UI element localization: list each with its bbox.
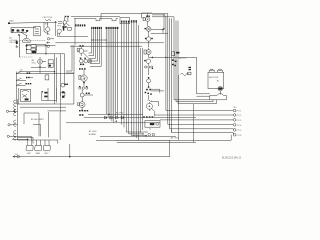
wire rung 1 bbox=[16, 73, 74, 75]
svg-text:PO 4: PO 4 bbox=[237, 125, 243, 127]
terminal pads right bbox=[62, 91, 65, 93]
wire leads bbox=[83, 70, 85, 87]
wire leads bbox=[44, 22, 48, 31]
resistor R1 bbox=[12, 29, 15, 31]
resistor R10 bbox=[68, 27, 72, 30]
svg-text:A3 CNTL: A3 CNTL bbox=[171, 136, 180, 139]
switch S2 arm bbox=[44, 32, 50, 35]
coil lead symbol bbox=[148, 100, 152, 102]
transistor Q16 bbox=[146, 59, 150, 63]
switch S1 arm bbox=[20, 32, 27, 36]
box outline bbox=[24, 113, 39, 136]
wire leads bbox=[142, 13, 148, 26]
node junction bbox=[14, 110, 16, 112]
stage pads bbox=[145, 38, 147, 39]
diode CR3 bbox=[116, 116, 118, 119]
node junction bbox=[27, 139, 29, 141]
wire loop from top bbox=[142, 12, 152, 14]
wire rung long bbox=[19, 71, 55, 73]
node junction bbox=[83, 82, 85, 84]
transistor Q3 bbox=[46, 27, 50, 31]
parts cluster lower bbox=[145, 92, 147, 93]
wire second bus bbox=[11, 26, 36, 28]
resistor R11 bbox=[77, 48, 79, 51]
box bottom line bbox=[13, 156, 170, 158]
svg-text:A2 TP1: A2 TP1 bbox=[179, 57, 187, 60]
wire comb group 4 verticals bbox=[122, 23, 148, 137]
terminal pads row bbox=[79, 86, 81, 87]
wire vertical v7 bbox=[178, 75, 180, 140]
stage pads lower bbox=[80, 64, 82, 66]
node junction bbox=[26, 45, 27, 46]
wire verticals right pair bbox=[61, 54, 65, 104]
wire vertical v8 bbox=[192, 104, 194, 143]
relay K1 cluster bbox=[145, 121, 160, 128]
terminal pad group P2 bbox=[91, 27, 102, 29]
wire vertical v6 bbox=[177, 21, 179, 104]
wire inner loop bbox=[152, 15, 164, 29]
node junction bbox=[165, 57, 166, 58]
svg-text:C A1 TP10: C A1 TP10 bbox=[42, 16, 53, 19]
switch arm 2 bbox=[16, 78, 21, 80]
node junction bbox=[26, 49, 27, 50]
wire leads bbox=[65, 17, 70, 28]
wire comb group 3 verticals bbox=[106, 29, 117, 123]
terminal pads row bbox=[79, 110, 81, 111]
terminal pads right bbox=[189, 67, 192, 68]
terminal pad group P4 bbox=[121, 20, 137, 22]
wire leads bbox=[148, 41, 150, 47]
wire leads bbox=[147, 63, 149, 65]
parts cluster bbox=[172, 64, 174, 65]
wire rails bbox=[66, 45, 72, 71]
node junction bbox=[18, 34, 20, 36]
hook contact pair 2 bbox=[14, 106, 16, 112]
wire riser bbox=[69, 144, 71, 157]
svg-text:MIC: MIC bbox=[27, 153, 31, 155]
transistor Q11 bbox=[79, 102, 85, 108]
wire leads bbox=[148, 83, 150, 87]
svg-text:A4 RCVR: A4 RCVR bbox=[209, 76, 219, 79]
coil symbol bbox=[181, 73, 189, 75]
hook contact pair 3 bbox=[14, 113, 16, 123]
wire mid bus A bbox=[57, 33, 88, 36]
wire bus jog bbox=[96, 19, 116, 21]
wire vertical v2 bbox=[167, 14, 169, 125]
hook contact pair 4 bbox=[14, 123, 16, 133]
svg-text:PO 1: PO 1 bbox=[237, 111, 243, 113]
svg-text:A1 TP2: A1 TP2 bbox=[116, 111, 124, 114]
wire comb group 5 verticals bbox=[136, 23, 142, 141]
contact pads 1 bbox=[27, 72, 29, 73]
switch arm 3 bbox=[16, 83, 21, 85]
capacitor C2 bbox=[34, 27, 41, 36]
node junction bbox=[108, 114, 109, 115]
bracket parts bbox=[61, 92, 65, 96]
wire bus lower2 bbox=[96, 139, 196, 141]
terminal circle bbox=[6, 110, 8, 112]
svg-text:KEY: KEY bbox=[44, 153, 49, 155]
hook contact pair 5 bbox=[14, 134, 16, 140]
wire to right bbox=[149, 57, 210, 93]
capacitor C3 bbox=[26, 30, 28, 32]
wire drop bbox=[10, 27, 12, 32]
svg-text:PO 6: PO 6 bbox=[237, 135, 243, 137]
node junction bbox=[45, 53, 46, 54]
pin 1 bbox=[166, 109, 242, 112]
transistor Q15 bbox=[146, 50, 151, 55]
svg-text:BOARD: BOARD bbox=[89, 133, 97, 136]
node junction bbox=[11, 32, 12, 33]
pin 2 bbox=[155, 114, 242, 117]
node junction bbox=[39, 66, 41, 68]
resistor R12 bbox=[79, 76, 81, 80]
wire transducer drops bbox=[28, 140, 49, 143]
stage parts cluster bbox=[146, 89, 148, 91]
wire from hooks to transducers bbox=[18, 137, 58, 143]
wire top of mic box bbox=[48, 110, 67, 112]
hook contact pair 1 bbox=[14, 100, 16, 106]
terminal circle bbox=[7, 135, 9, 137]
wire stub bbox=[50, 38, 54, 40]
wire top bus bbox=[9, 22, 58, 23]
wire vertical v5 bbox=[175, 21, 177, 102]
wire cluster bottom leads bbox=[48, 31, 59, 35]
wire extension bbox=[57, 53, 65, 55]
box top lines bbox=[117, 140, 196, 142]
node junction bbox=[145, 135, 146, 136]
wire vertical from bus bbox=[55, 22, 57, 36]
svg-text:PO 5: PO 5 bbox=[237, 130, 243, 132]
stage pads bbox=[80, 58, 82, 59]
wire leads bbox=[82, 89, 93, 101]
transistor Q5 bbox=[63, 21, 67, 25]
node junction bbox=[45, 45, 46, 46]
wire node line bbox=[11, 31, 27, 33]
sub box outline bbox=[27, 45, 46, 54]
wire leads bbox=[60, 84, 68, 85]
transducer LS2 bbox=[35, 143, 42, 150]
wire verticals to bottom bbox=[49, 112, 60, 140]
pads bbox=[64, 84, 66, 85]
resistor R3 bbox=[58, 22, 62, 24]
wire vertical bbox=[148, 68, 150, 75]
terminal pads bbox=[62, 26, 64, 28]
transistor Q12 bbox=[146, 17, 150, 21]
resistor R15 bbox=[144, 50, 146, 54]
terminal pads bbox=[65, 16, 67, 17]
transistor Q13 bbox=[146, 27, 151, 32]
wire vertical v4 bbox=[171, 18, 173, 132]
ground terminal on bottom line bbox=[17, 155, 20, 158]
stage pads bbox=[145, 28, 147, 29]
transistor Q19 bbox=[61, 83, 65, 87]
svg-text:NC: NC bbox=[234, 107, 238, 109]
wire mid bus C bbox=[70, 45, 142, 47]
feeder cluster left bbox=[62, 16, 75, 45]
diode CR2 bbox=[110, 116, 112, 119]
terminal pad group P3 bbox=[106, 27, 119, 29]
stage pads bbox=[144, 60, 146, 61]
wire L return bbox=[196, 135, 231, 141]
connector box P4 bbox=[120, 18, 130, 24]
relay box two cells bbox=[48, 60, 53, 68]
wire L right bbox=[151, 89, 165, 93]
parts cluster bbox=[172, 59, 174, 61]
node junction bbox=[163, 28, 164, 29]
plug symbol P2 bbox=[218, 69, 223, 72]
transducer LS1 bbox=[26, 143, 33, 150]
wire vertical to board below bbox=[19, 35, 21, 57]
node junction bbox=[152, 68, 153, 69]
wire lead down bbox=[219, 91, 221, 95]
terminal pads row bbox=[143, 116, 145, 118]
resistor R2 bbox=[17, 30, 20, 32]
node junction bbox=[42, 91, 43, 92]
plug symbol P1 bbox=[209, 69, 214, 72]
wire links right bbox=[151, 30, 168, 34]
wire top bus 1 bbox=[101, 13, 168, 20]
wire leads bbox=[148, 48, 150, 57]
resistor R8 bbox=[31, 45, 36, 48]
resistor R4 inside bbox=[35, 29, 39, 34]
stage pads bbox=[146, 16, 148, 17]
wire diagonal bbox=[152, 108, 155, 116]
wire strip rail bbox=[17, 99, 19, 140]
wire rung 2 bbox=[16, 78, 33, 81]
node junction bbox=[142, 133, 143, 134]
switch arm 1 bbox=[16, 71, 21, 73]
terminal pad bbox=[176, 52, 179, 54]
wire Q1 emitter bbox=[26, 44, 28, 46]
wire loop over column bbox=[152, 17, 174, 100]
pin 3 bbox=[160, 119, 242, 122]
svg-text:A1 MIC AMPL: A1 MIC AMPL bbox=[31, 118, 45, 121]
wire top bus 3 bbox=[74, 18, 118, 20]
wire bus bbox=[84, 116, 196, 118]
wire lead bbox=[10, 124, 17, 126]
transistor Q8 bbox=[84, 59, 88, 63]
jack tip arc bbox=[22, 90, 29, 92]
wire lead bbox=[9, 110, 18, 112]
ground symbol bbox=[25, 46, 28, 47]
wire internal bbox=[27, 46, 46, 53]
pin 5 bbox=[170, 129, 242, 132]
diode CR4 bbox=[121, 116, 123, 119]
CR diode bridge bbox=[88, 59, 92, 63]
wire lead lower bbox=[12, 138, 27, 140]
jack box J1 bbox=[21, 89, 31, 101]
arrow terminal bbox=[13, 156, 17, 158]
wire exit right bbox=[46, 46, 57, 54]
box outline bbox=[208, 72, 224, 88]
wire leads bbox=[81, 47, 87, 56]
earpiece symbol bbox=[218, 86, 223, 91]
node junction bbox=[116, 121, 117, 122]
wire comb group 2 verticals with staircase bends to the left bbox=[89, 29, 102, 66]
resistor R14 bbox=[143, 17, 145, 20]
small box bbox=[45, 75, 49, 80]
resistor R9 bbox=[31, 48, 35, 50]
wire stub bbox=[162, 30, 164, 34]
wire top bus 2 bbox=[71, 16, 120, 18]
resistor R7 bbox=[16, 41, 18, 44]
arrow terminal bbox=[47, 42, 51, 44]
node junction bbox=[148, 77, 150, 79]
wire vertical bbox=[63, 23, 65, 30]
capacitor C1 bbox=[22, 29, 24, 31]
stage pads bbox=[86, 93, 88, 94]
transistor Q14 bbox=[146, 37, 150, 41]
wire vertical v1 bbox=[165, 16, 167, 111]
node junction bbox=[69, 156, 71, 158]
resistor R5 bbox=[63, 27, 65, 30]
wire leads bbox=[148, 26, 150, 37]
terminal circle bbox=[47, 45, 49, 47]
terminal pad group P1 bbox=[75, 24, 85, 26]
sub box bbox=[42, 88, 57, 103]
svg-text:A1 1000: A1 1000 bbox=[89, 130, 98, 133]
node junction bbox=[81, 110, 83, 112]
dashed board outline A2 bbox=[20, 41, 47, 58]
jack cross contact bbox=[22, 94, 27, 97]
wire box bottom bbox=[17, 73, 74, 104]
wire vertical v3 bbox=[169, 18, 171, 129]
node junction bbox=[163, 14, 164, 15]
contact pads 2 bbox=[26, 77, 28, 78]
wire bus lower bbox=[100, 136, 176, 138]
pin 4 bbox=[168, 124, 242, 127]
ground symbol bbox=[15, 45, 18, 48]
wire bottom bbox=[197, 96, 227, 100]
pin 6 bbox=[172, 133, 243, 137]
wire bus bbox=[88, 113, 143, 115]
node junction bbox=[91, 39, 92, 40]
transistor Q10 bbox=[80, 93, 84, 97]
transistor Q7 bbox=[80, 59, 84, 63]
svg-text:OSC: OSC bbox=[32, 63, 37, 65]
stage pads bbox=[79, 45, 81, 47]
transducer LS3 bbox=[43, 143, 50, 150]
wire lead long bbox=[9, 136, 31, 140]
diode CR1 bbox=[104, 116, 106, 119]
capacitor C4 bbox=[79, 114, 81, 116]
wire mid bus B bbox=[55, 42, 164, 44]
box right edge bbox=[169, 140, 171, 156]
svg-text:GND: GND bbox=[9, 21, 14, 23]
node junction bbox=[106, 39, 107, 40]
wire vertical bbox=[74, 18, 76, 45]
terminal circles row bbox=[79, 87, 88, 89]
svg-text:PO 3: PO 3 bbox=[237, 120, 243, 122]
component box bbox=[188, 72, 191, 75]
transistor Q6 bbox=[79, 49, 84, 54]
resistor R13 bbox=[78, 103, 80, 106]
transistor Q4 bbox=[57, 29, 61, 33]
wire rail 2 bbox=[18, 88, 20, 104]
node GND terminal bbox=[8, 21, 14, 24]
node junction bbox=[54, 71, 55, 72]
terminal circles pair bbox=[148, 133, 155, 136]
resistor R16 bbox=[172, 52, 175, 56]
wire leads bbox=[40, 57, 46, 74]
node junction bbox=[148, 86, 150, 88]
wire vertical bbox=[60, 104, 62, 112]
svg-text:EL2KC012 345-13: EL2KC012 345-13 bbox=[222, 158, 242, 160]
transistor Q18 bbox=[146, 103, 152, 109]
wire rail bbox=[15, 72, 17, 105]
node junction bbox=[162, 29, 164, 31]
node junction bbox=[152, 57, 154, 59]
wire bends to pins bbox=[170, 124, 234, 134]
wire vertical bbox=[148, 95, 150, 99]
lower box with notch bbox=[210, 94, 227, 101]
wire link bbox=[83, 60, 88, 62]
wire diagonal bbox=[83, 53, 88, 58]
svg-text:EAR: EAR bbox=[36, 152, 41, 155]
crystal Y1 bbox=[32, 51, 36, 53]
box corner bbox=[33, 125, 41, 137]
wire branch right bbox=[151, 102, 159, 106]
wire verticals from crystal outputs bbox=[55, 54, 57, 104]
node junction bbox=[55, 21, 56, 22]
transistor Q9 bbox=[81, 75, 87, 81]
wire second rail bbox=[20, 106, 66, 108]
wire leads bbox=[148, 102, 150, 111]
wire rung 3 bbox=[16, 84, 25, 86]
wire branch bbox=[31, 66, 46, 68]
jack sleeve mark bbox=[25, 98, 29, 100]
transistor Q17 bbox=[147, 79, 151, 83]
transistor Q1 bbox=[23, 35, 31, 42]
transistor Q20 bbox=[38, 59, 43, 64]
cell mark bbox=[49, 65, 51, 67]
wire cross tie bbox=[92, 39, 106, 41]
terminal pads row bbox=[79, 68, 81, 70]
terminal circle bbox=[8, 124, 10, 126]
wire feeds from verticals bbox=[174, 100, 217, 104]
transistor Q2 bbox=[45, 19, 51, 20]
terminal circles row bbox=[145, 66, 153, 68]
wire leads bbox=[81, 108, 83, 110]
contact pads 3 bbox=[25, 83, 27, 84]
svg-text:PO 2: PO 2 bbox=[237, 115, 243, 117]
parts bbox=[44, 92, 47, 94]
terminal circle mid-left bbox=[47, 38, 49, 40]
wire bus bbox=[66, 122, 160, 124]
